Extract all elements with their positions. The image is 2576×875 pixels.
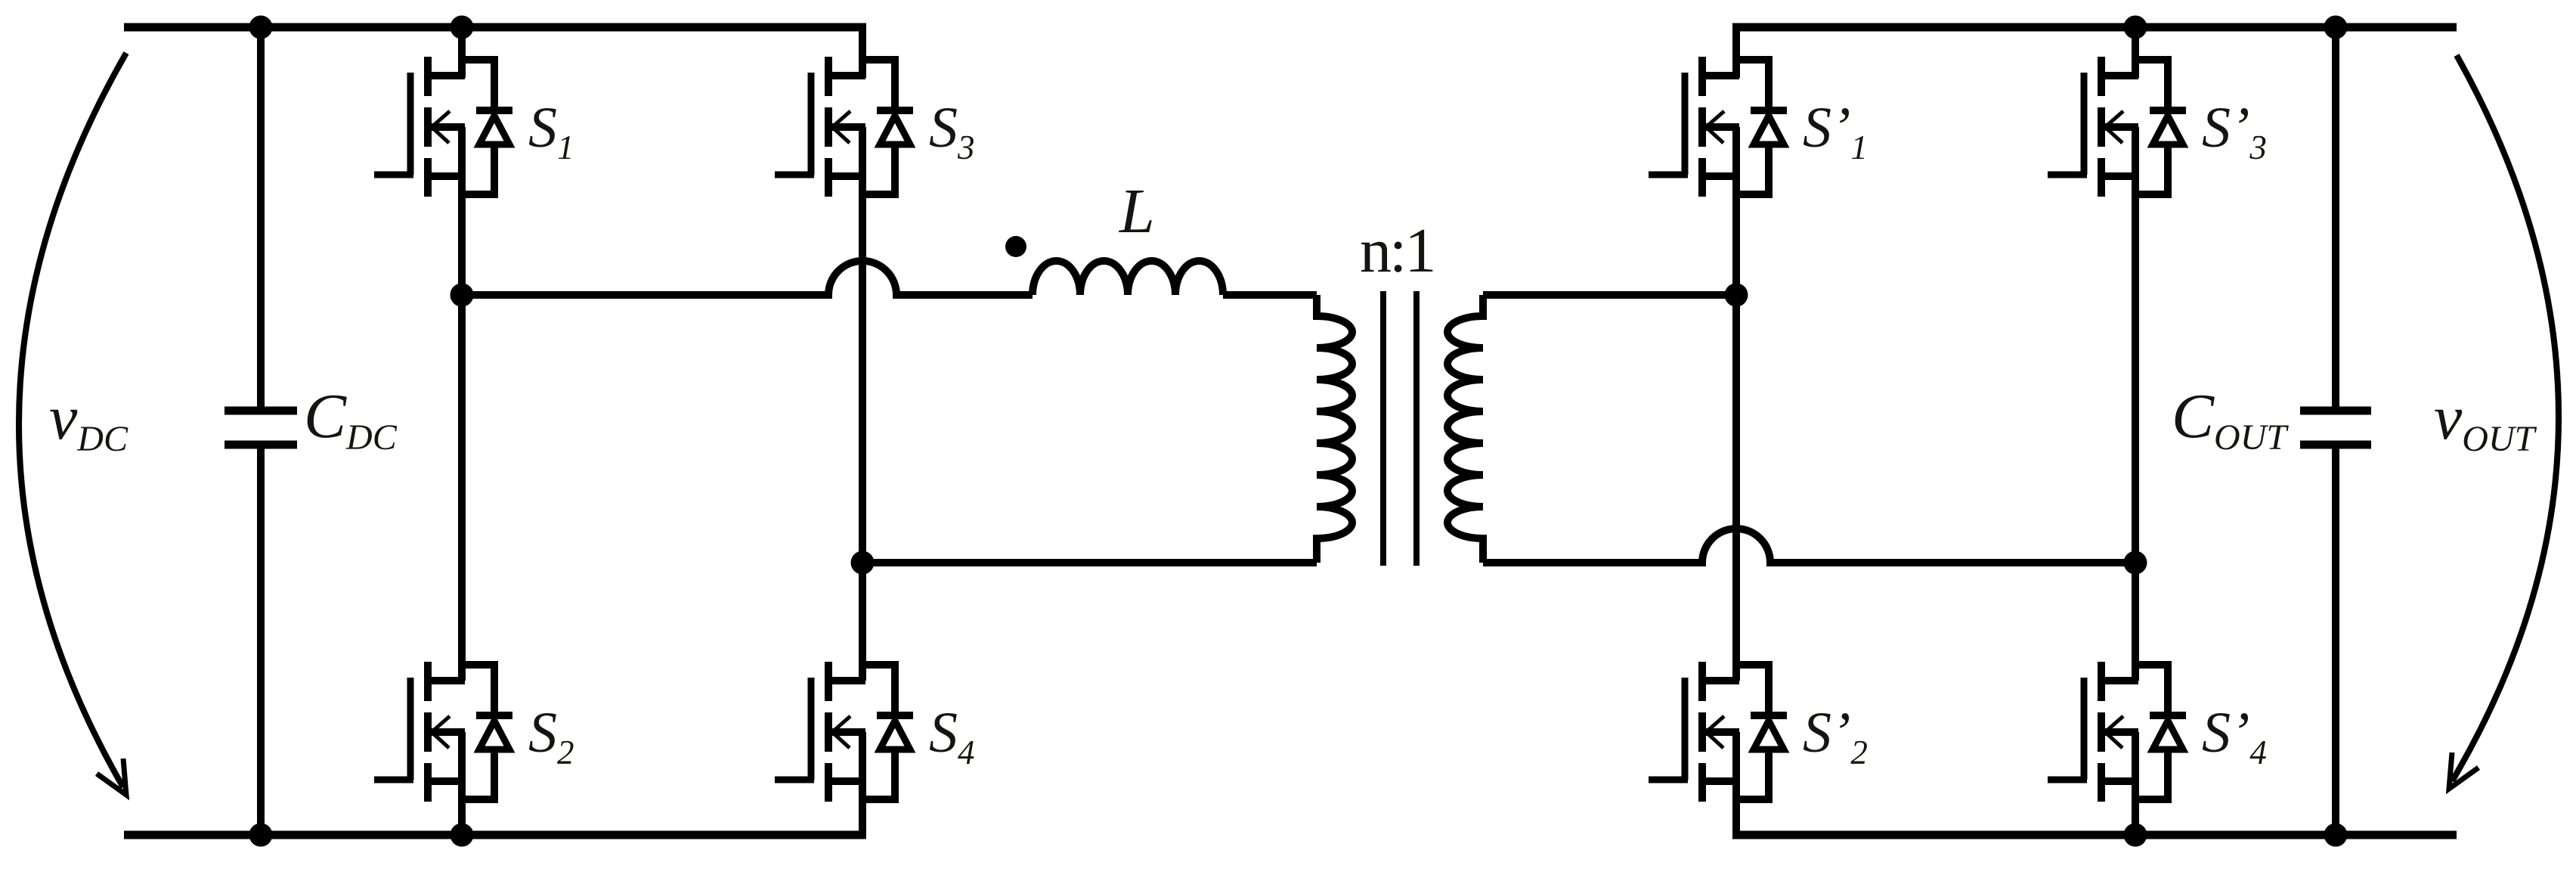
transistor S1 (MOSFET with body diode) [374,57,512,197]
wire: S3/S4 leg lower source to bottom bus [859,732,866,835]
node top bus / C_OUT junction [2324,16,2348,39]
capacitor C_OUT top lead wire [2332,27,2339,411]
transistor S3 (MOSFET with body diode) [775,57,913,197]
wire: S1/S2 leg upper source to mid node [458,127,466,295]
capacitor C_OUT plates [2300,411,2371,445]
top-right bus wire [1732,23,2457,32]
node node B: S'1-S'2 midpoint [1725,284,1748,307]
node node: S3-S4 midpoint [851,551,875,575]
wire: node A to inductor with crossover hop over S3/S4 leg [462,261,1033,295]
top-left bus wire [124,23,866,32]
transistor S'1 (MOSFET with body diode) [1649,57,1787,197]
transistor S'2 (MOSFET with body diode) [1649,662,1787,802]
transistor S'4 (MOSFET with body diode) [2048,662,2186,802]
wire: S'3/S'4 leg drain stub (top) [2132,27,2139,78]
wire: S'3/S'4 leg lower drain stub [2132,563,2139,681]
v_OUT measurement arc with arrowhead [2452,55,2559,781]
svg-text:L: L [1119,176,1155,247]
transistor S2 (MOSFET with body diode) [374,662,512,802]
transformer secondary winding [1447,295,1483,563]
bottom-right bus wire [1732,831,2457,839]
wire: S'3/S'4 leg lower source to bottom bus [2132,732,2139,835]
wire: S'1/S'2 leg upper source to mid node [1732,127,1740,295]
node bottom bus / C_DC junction [249,824,273,847]
wire: transformer secondary bottom to S'3/S'4 mid node with crossover hop [1483,529,2135,563]
node top bus / S1 junction [450,16,474,39]
node bottom bus / C_OUT junction [2324,824,2348,847]
wire: S1/S2 leg lower source to bottom bus [458,732,466,835]
wire: S1/S2 leg drain stub (top) [458,27,466,78]
wire: S3/S4 leg lower drain stub [859,563,866,681]
transformer core lines [1383,291,1416,566]
node bottom bus / S2 junction [450,824,474,847]
wire: inductor to transformer primary [1223,291,1317,299]
capacitor C_DC top lead wire [257,27,265,411]
wire: transformer secondary top to S'1/S'2 mid node [1483,291,1736,299]
capacitor C_OUT bottom lead wire [2332,445,2339,835]
inductor L [1033,261,1223,295]
wire: S'1/S'2 leg lower drain stub [1732,295,1740,681]
wire: S'1/S'2 leg drain stub (top) [1732,27,1740,78]
wire: S'1/S'2 leg lower source to bottom bus [1732,732,1740,835]
node bottom bus / S'4 junction [2124,824,2147,847]
transformer primary winding [1317,295,1352,563]
wire: S1/S2 leg lower drain stub [458,295,466,681]
capacitor C_DC bottom lead wire [257,445,265,835]
wire: transformer primary bottom to S3/S4 mid node [862,559,1317,566]
v_DC measurement arc with arrowhead [19,53,126,787]
transistor S4 (MOSFET with body diode) [775,662,913,802]
bottom-left bus wire [124,831,866,839]
wire: S'3/S'4 leg upper source to mid node [2132,127,2139,563]
capacitor C_DC plates [224,411,297,445]
node top bus / C_DC junction [249,16,273,39]
inductor polarity dot [1005,236,1026,257]
svg-text:n:1: n:1 [1360,216,1434,286]
node node A: S1-S2 midpoint [450,284,474,307]
node node: S'3-S'4 midpoint [2124,551,2147,575]
wire: S3/S4 leg upper source to mid node [859,127,866,563]
node top bus / S'3 junction [2124,16,2147,39]
wire: S3/S4 leg drain stub (top) [859,27,866,78]
transistor S'3 (MOSFET with body diode) [2048,57,2186,197]
